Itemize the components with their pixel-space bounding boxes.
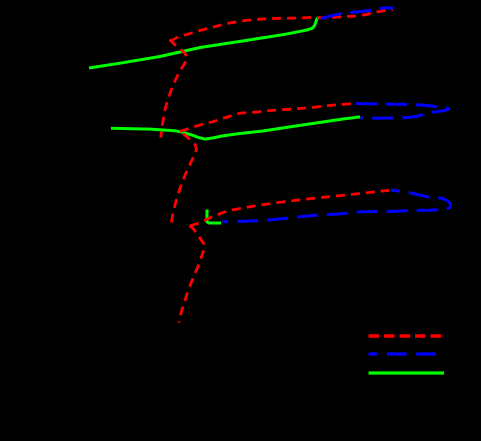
top panel: red dashed S-shaped connector descending [161, 40, 188, 138]
middle panel: blue dashed curve with right fold [356, 104, 449, 119]
top panel: green solid curve with vertical jump [89, 18, 318, 68]
legend: blue dashed sample line [369, 352, 438, 355]
top panel: red dashed main curve [171, 9, 394, 41]
bottom panel: green L-shaped segment [207, 210, 221, 224]
legend: red dashed sample line [369, 334, 442, 338]
top panel: blue dashed curve [321, 8, 393, 19]
bottom panel: red dashed hook and long descending branch [179, 226, 204, 323]
middle panel: red dashed main curve [180, 103, 357, 131]
bottom panel: blue dashed curve with right fold [223, 190, 451, 222]
middle panel: red dashed S-shaped connector descending [171, 134, 197, 228]
legend: green solid sample line [369, 371, 445, 374]
bottom panel: red dashed main curve [190, 190, 389, 226]
middle panel: green solid curve with dip [111, 117, 360, 139]
